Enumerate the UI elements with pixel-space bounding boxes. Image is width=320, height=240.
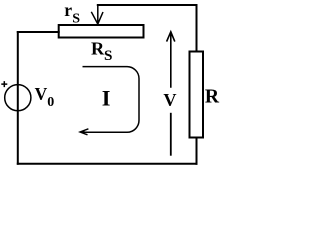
current loop arrowhead (80, 129, 88, 135)
svg-text:S: S (104, 47, 112, 64)
svg-text:S: S (72, 12, 80, 27)
voltage arrow V lower segment (170, 113, 172, 156)
resistor R (190, 52, 204, 138)
wire bottom horizontal (17, 163, 198, 165)
svg-text:V: V (35, 84, 48, 104)
wire right vertical lower (196, 138, 198, 165)
voltage source V0 (5, 85, 31, 111)
wiper arrow onto RS (91, 5, 103, 24)
current loop I (81, 67, 139, 133)
svg-text:r: r (64, 0, 72, 20)
wire right vertical upper (196, 4, 198, 52)
plus sign polarity (1, 81, 7, 87)
voltage arrow V upper segment (167, 32, 175, 88)
svg-text:V: V (163, 90, 176, 110)
svg-text:R: R (91, 38, 105, 58)
wire left vertical (17, 31, 19, 165)
wire top-left horizontal (17, 31, 60, 33)
svg-text:I: I (102, 86, 111, 111)
svg-text:0: 0 (47, 95, 54, 110)
resistor RS (59, 25, 144, 38)
wire top horizontal (97, 4, 197, 6)
svg-text:R: R (205, 87, 220, 108)
